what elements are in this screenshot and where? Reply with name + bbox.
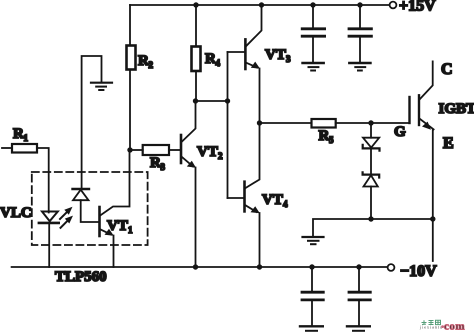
wire gate node to zeners	[370, 123, 372, 138]
svg-text:TLP560: TLP560	[55, 269, 107, 285]
resistor R1	[12, 144, 37, 153]
light arrow 2	[61, 221, 68, 228]
ground (mid)	[303, 236, 324, 238]
svg-text:R: R	[138, 53, 149, 69]
svg-text:3: 3	[286, 54, 291, 64]
svg-text:VLC: VLC	[0, 205, 32, 221]
wire ground line y219	[313, 219, 433, 237]
resistor R4	[195, 5, 197, 47]
wire bottom -10V rail	[12, 266, 388, 268]
wire R3 to VT2 base	[169, 149, 180, 151]
svg-text:R: R	[205, 51, 216, 67]
svg-text:R: R	[150, 155, 161, 171]
wire VT3 base to VT4 base	[227, 52, 229, 198]
node cap C2 top	[357, 2, 362, 7]
ground C1	[303, 62, 324, 64]
node D (VT3e/VT4c/R5)	[257, 120, 262, 125]
transistor VT3	[228, 51, 245, 53]
LED (emitter diode)	[42, 212, 58, 222]
node VT2 emitter	[193, 264, 198, 269]
svg-text:VT: VT	[197, 144, 218, 160]
svg-text:2: 2	[149, 60, 154, 70]
wire R5 to gate	[336, 122, 410, 124]
resistor R5	[312, 119, 336, 128]
svg-text:com: com	[444, 320, 465, 332]
capacitor C4	[358, 267, 360, 292]
svg-text:4: 4	[216, 58, 221, 68]
capacitor C1	[312, 5, 314, 28]
ground C2	[349, 62, 370, 64]
node cap C1 top	[310, 2, 315, 7]
node cap C3	[309, 264, 314, 269]
node R4 top	[193, 2, 198, 7]
dashed box TLP560	[32, 172, 148, 245]
svg-text:1: 1	[24, 133, 29, 143]
svg-text:G: G	[394, 124, 406, 140]
light arrow 1	[60, 213, 67, 220]
wire photodiode cathode to ground	[82, 56, 102, 189]
svg-text:4: 4	[283, 199, 288, 209]
photodiode	[73, 188, 90, 190]
node gate	[368, 120, 373, 125]
wire photodiode anode to VT1 base	[81, 200, 99, 222]
zener VS2	[363, 172, 380, 177]
svg-text:VT: VT	[107, 218, 128, 234]
wire zener bottom	[370, 187, 372, 220]
node B (R4/VT2c)	[193, 98, 198, 103]
wire rail to R2	[129, 5, 131, 46]
node cap C4	[356, 264, 361, 269]
svg-text:+15V: +15V	[399, 0, 436, 15]
wire top +15V rail	[130, 4, 390, 6]
transistor VT4	[228, 197, 244, 199]
transistor VT2	[180, 135, 183, 163]
terminal +15V	[390, 2, 397, 9]
watermark jiexiantu logo	[419, 320, 465, 332]
wire R2 bottom	[129, 70, 131, 151]
terminal -10V	[388, 264, 395, 271]
ground (top-left)	[91, 82, 112, 84]
wire between zeners	[370, 148, 372, 174]
svg-text:3: 3	[161, 162, 166, 172]
ground C3	[300, 325, 323, 327]
node VT4 emitter	[257, 264, 262, 269]
ground C4	[347, 325, 370, 327]
svg-text:C: C	[441, 61, 453, 78]
node VT3 collector top	[259, 2, 264, 7]
zener VS1	[363, 138, 379, 148]
svg-text:VT: VT	[265, 47, 286, 63]
svg-text:R: R	[13, 126, 24, 142]
svg-text:5: 5	[329, 135, 334, 145]
IGBT U1	[408, 97, 410, 123]
resistor R2	[127, 46, 136, 70]
capacitor C2	[359, 5, 361, 28]
svg-text:j i e x i a n t u: j i e x i a n t u	[419, 325, 442, 330]
wire node D to R5	[260, 122, 312, 124]
svg-text:−10V: −10V	[400, 263, 437, 280]
capacitor C3	[311, 267, 313, 292]
node A (R2/R3/VT1c)	[127, 147, 132, 152]
svg-text:1: 1	[128, 225, 133, 235]
svg-text:R: R	[319, 128, 330, 144]
wire R1 to LED anode	[37, 148, 49, 213]
svg-text:E: E	[443, 135, 454, 152]
svg-text:IGBT: IGBT	[439, 101, 474, 117]
wire input to R1	[2, 147, 12, 149]
wire IGBT emitter	[432, 129, 434, 261]
wire LED cathode down	[48, 223, 50, 267]
resistor R3	[143, 145, 169, 155]
wire node B to bases line	[196, 100, 228, 102]
transistor VT1	[98, 207, 101, 236]
wire node A to R3	[130, 149, 143, 151]
node C (bases)	[225, 98, 230, 103]
node E (zener/ground wire)	[368, 216, 373, 221]
svg-text:2: 2	[218, 151, 223, 161]
node F (emitter line)	[430, 216, 435, 221]
svg-text:VT: VT	[262, 192, 283, 208]
